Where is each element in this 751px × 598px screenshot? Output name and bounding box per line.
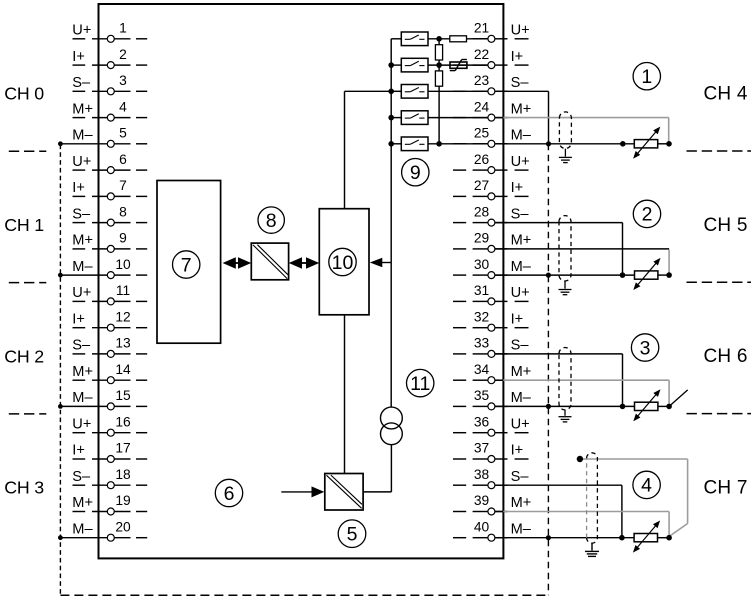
cable shield (CH 4) xyxy=(559,112,571,149)
svg-text:M–: M– xyxy=(511,521,532,537)
terminal 20 (M– CH 3) xyxy=(60,519,147,541)
wire switch row 23 to terminal 23 xyxy=(428,90,488,92)
svg-text:32: 32 xyxy=(474,309,489,324)
junction (row 22) xyxy=(436,62,442,68)
terminal 23 (S– CH 4) xyxy=(453,73,529,95)
cable shield (CH 5) xyxy=(559,216,571,281)
svg-text:4: 4 xyxy=(119,99,127,114)
switch S1 (multiplexer row 21) xyxy=(391,32,428,46)
switch S4 (multiplexer row 24) xyxy=(391,111,428,125)
junction M- bus (CH 6) xyxy=(546,404,551,409)
svg-text:14: 14 xyxy=(115,362,131,377)
svg-text:39: 39 xyxy=(474,493,490,508)
label 9 (circled) xyxy=(402,159,429,186)
svg-text:4: 4 xyxy=(641,475,652,497)
svg-text:10: 10 xyxy=(115,257,131,272)
terminal 40 (M– CH 7) xyxy=(453,519,532,541)
label 11 (circled) xyxy=(407,369,434,396)
terminal 25 (M– CH 4) xyxy=(453,126,532,148)
terminal 18 (S– CH 3) xyxy=(72,467,147,489)
svg-text:U+: U+ xyxy=(72,285,91,301)
wire switch row 24 to terminal 24 xyxy=(428,117,488,119)
svg-text:40: 40 xyxy=(474,519,490,534)
svg-text:U+: U+ xyxy=(511,154,530,170)
switch S2 (multiplexer row 22) xyxy=(391,58,428,72)
svg-text:M+: M+ xyxy=(511,101,532,117)
terminal 3 (S– CH 0) xyxy=(72,73,147,95)
svg-text:S–: S– xyxy=(511,469,530,485)
terminal 27 (I+ CH 5) xyxy=(453,178,529,200)
terminal 11 (U+ CH 2) xyxy=(72,283,147,305)
svg-text:I+: I+ xyxy=(511,49,524,65)
terminal 4 (M+ CH 0) xyxy=(72,99,147,121)
channel separator (right, dashed) xyxy=(687,281,751,283)
terminal 6 (U+ CH 1) xyxy=(72,152,147,174)
reference label 4 (circled) xyxy=(633,471,660,498)
wire resistor to terminal 21 xyxy=(467,38,489,40)
junction left M- bus terminal 20 xyxy=(58,535,63,540)
terminal 13 (S– CH 2) xyxy=(72,336,147,358)
label 7 (circled) xyxy=(173,251,200,278)
terminal 22 (I+ CH 4) xyxy=(453,47,529,69)
terminal 28 (S– CH 5) xyxy=(453,204,529,226)
resistor (row 21) xyxy=(450,36,467,42)
wire S- terminal 23 to M- (CH 4) xyxy=(495,91,549,144)
svg-text:33: 33 xyxy=(474,336,490,351)
svg-text:7: 7 xyxy=(119,178,127,193)
terminal 12 (I+ CH 2) xyxy=(72,309,147,331)
svg-text:M+: M+ xyxy=(72,233,93,249)
terminal 14 (M+ CH 2) xyxy=(72,362,147,384)
terminal 15 (M– CH 2) xyxy=(60,388,147,410)
junction sensor right (CH 7) xyxy=(666,535,672,541)
svg-text:37: 37 xyxy=(474,441,489,456)
label 6 (circled) xyxy=(215,479,242,506)
sensor potentiometer (CH 4) xyxy=(633,127,660,159)
wire M+ terminal 29 (CH 5) xyxy=(495,249,669,273)
junction sensor left (CH 5) xyxy=(620,272,626,278)
wire S- terminal 38 to sensor (CH 7) xyxy=(495,485,622,538)
unconnected lead (CH 6) xyxy=(669,390,688,407)
junction sensor left (CH 7) xyxy=(619,535,625,541)
svg-text:2: 2 xyxy=(119,47,127,62)
junction sensor left (CH 4) xyxy=(620,141,626,147)
switch bus vertical (group 9 to current source) xyxy=(390,39,392,407)
svg-text:M–: M– xyxy=(72,521,93,537)
svg-text:9: 9 xyxy=(410,162,421,184)
svg-text:M+: M+ xyxy=(72,364,93,380)
M- equipotential bus (bottom, dashed) xyxy=(60,594,548,596)
svg-text:S–: S– xyxy=(72,206,91,222)
terminal 10 (M– CH 1) xyxy=(60,257,147,279)
junction (row 22) xyxy=(388,62,394,68)
svg-text:18: 18 xyxy=(115,467,131,482)
svg-text:I+: I+ xyxy=(72,180,85,196)
terminal 36 (U+ CH 7) xyxy=(453,414,530,436)
svg-text:M–: M– xyxy=(511,128,532,144)
svg-text:CH 3: CH 3 xyxy=(4,478,44,498)
junction sensor right (CH 6) xyxy=(666,404,672,410)
svg-text:CH 5: CH 5 xyxy=(704,215,748,236)
svg-text:CH 7: CH 7 xyxy=(704,477,748,498)
label 10 (circled) xyxy=(329,248,356,275)
wire block 10 to block 5 xyxy=(344,315,346,474)
terminal 33 (S– CH 6) xyxy=(453,336,529,358)
terminal 7 (I+ CH 1) xyxy=(72,178,147,200)
svg-text:S–: S– xyxy=(72,338,91,354)
switch S3 (multiplexer row 23) xyxy=(391,85,428,99)
terminal 9 (M+ CH 1) xyxy=(72,231,147,253)
svg-text:8: 8 xyxy=(119,204,127,219)
svg-text:U+: U+ xyxy=(511,23,530,39)
channel separator (left, dashed) xyxy=(9,413,47,415)
svg-text:36: 36 xyxy=(474,414,490,429)
svg-text:U+: U+ xyxy=(511,285,530,301)
junction M- bus (CH 7) xyxy=(546,535,551,540)
wire M+ terminal 39 (gray, CH 7) xyxy=(495,512,669,536)
wire S- terminal 33 to sensor (CH 6) xyxy=(495,354,623,407)
svg-text:28: 28 xyxy=(474,204,490,219)
svg-text:6: 6 xyxy=(119,152,127,167)
junction (row 24) xyxy=(388,115,394,121)
svg-text:I+: I+ xyxy=(72,443,85,459)
svg-text:13: 13 xyxy=(115,336,131,351)
sensor potentiometer (CH 7) xyxy=(633,521,660,553)
junction sensor left (CH 6) xyxy=(620,404,626,410)
svg-text:M+: M+ xyxy=(511,364,532,380)
terminal 24 (M+ CH 4) xyxy=(453,99,531,121)
svg-text:M–: M– xyxy=(511,390,532,406)
reference label 3 (circled) xyxy=(631,334,658,361)
wire switch row 25 to terminal 25 xyxy=(428,143,488,145)
M- equipotential bus (right, dashed) xyxy=(547,144,549,595)
terminal 37 (I+ CH 7) xyxy=(453,441,529,463)
svg-text:30: 30 xyxy=(474,257,490,272)
arrow into block 10 xyxy=(370,258,391,268)
svg-text:S–: S– xyxy=(511,75,530,91)
terminal 1 (U+ CH 0) xyxy=(72,21,147,43)
svg-text:S–: S– xyxy=(72,75,91,91)
fuse/varistor (row 22) xyxy=(450,60,467,71)
svg-text:I+: I+ xyxy=(511,311,524,327)
channel separator (right, dashed) xyxy=(687,413,751,415)
arrow into block 5 (supply 24V) xyxy=(281,486,324,497)
svg-text:35: 35 xyxy=(474,388,490,403)
block 5 (isolated power supply) xyxy=(325,474,363,511)
svg-text:M+: M+ xyxy=(511,495,532,511)
label 5 (circled) xyxy=(338,520,366,548)
svg-text:11: 11 xyxy=(410,373,430,395)
svg-text:38: 38 xyxy=(474,467,490,482)
svg-text:5: 5 xyxy=(347,524,358,546)
svg-text:I+: I+ xyxy=(72,311,85,327)
svg-text:CH 0: CH 0 xyxy=(4,84,44,104)
wire switch row 22 to terminal 22 xyxy=(428,64,488,66)
terminal 30 (M– CH 5) xyxy=(453,257,532,279)
terminal 26 (U+ CH 5) xyxy=(453,152,530,174)
junction (row 25) xyxy=(436,141,442,147)
resistor chain vertical (rows 21-25) xyxy=(435,39,442,144)
svg-text:M–: M– xyxy=(72,259,93,275)
svg-text:S–: S– xyxy=(511,206,530,222)
reference label 2 (circled) xyxy=(633,200,660,227)
ground symbol (CH 6) xyxy=(559,410,572,422)
svg-text:U+: U+ xyxy=(72,416,91,432)
svg-text:3: 3 xyxy=(640,337,651,359)
channel separator (left, dashed) xyxy=(9,282,47,284)
svg-text:11: 11 xyxy=(116,283,130,298)
svg-text:M+: M+ xyxy=(511,233,532,249)
svg-text:U+: U+ xyxy=(511,416,530,432)
svg-text:22: 22 xyxy=(474,47,489,62)
svg-text:6: 6 xyxy=(224,483,235,505)
svg-text:CH 1: CH 1 xyxy=(4,215,44,235)
junction S-/M- (CH 4) xyxy=(546,141,551,146)
svg-text:1: 1 xyxy=(641,66,652,88)
terminal 39 (M+ CH 7) xyxy=(453,493,531,515)
wire M+ terminal 34 (gray, CH 6) xyxy=(495,380,669,404)
label 8 (circled) xyxy=(258,207,284,233)
junction M- bus (CH 5) xyxy=(546,273,551,278)
svg-text:31: 31 xyxy=(474,283,489,298)
svg-text:23: 23 xyxy=(474,73,490,88)
module outline xyxy=(99,4,504,558)
svg-text:24: 24 xyxy=(474,99,490,114)
svg-text:U+: U+ xyxy=(72,154,91,170)
terminal 16 (U+ CH 3) xyxy=(72,414,147,436)
svg-text:19: 19 xyxy=(115,493,131,508)
reference label 1 (circled) xyxy=(633,62,660,89)
svg-text:27: 27 xyxy=(474,178,489,193)
wire M- terminal 35 to sensor (CH 6) xyxy=(495,405,635,407)
svg-text:S–: S– xyxy=(72,469,91,485)
block 8 (electrical isolation) xyxy=(251,243,288,280)
terminal 5 (M– CH 0) xyxy=(60,126,147,148)
ground symbol (CH 5) xyxy=(559,281,572,295)
svg-text:M+: M+ xyxy=(72,495,93,511)
current source (two circles) xyxy=(381,407,403,445)
svg-text:I+: I+ xyxy=(511,180,524,196)
svg-text:12: 12 xyxy=(115,309,130,324)
svg-text:CH 2: CH 2 xyxy=(4,346,44,366)
wire M- terminal 25 to sensor (CH 4) xyxy=(495,143,634,145)
bus arrow 8 to 10 (double headed) xyxy=(289,257,319,269)
wire switch row 21 to resistor xyxy=(428,38,450,40)
wire row 23 to converter input xyxy=(345,91,392,208)
wire S- terminal 28 to sensor (CH 5) xyxy=(495,223,623,276)
svg-text:M–: M– xyxy=(511,259,532,275)
terminal 32 (I+ CH 6) xyxy=(453,309,529,331)
cable shield (CH 7) xyxy=(587,453,598,543)
ground symbol (CH 7) xyxy=(585,544,599,557)
svg-text:I+: I+ xyxy=(72,49,85,65)
svg-text:26: 26 xyxy=(474,152,490,167)
switch S5 (multiplexer row 25) xyxy=(391,137,428,151)
svg-text:M+: M+ xyxy=(72,101,93,117)
terminal 31 (U+ CH 6) xyxy=(453,283,530,305)
svg-text:1: 1 xyxy=(119,21,127,36)
terminal 38 (S– CH 7) xyxy=(453,467,529,489)
svg-text:21: 21 xyxy=(474,21,489,36)
channel separator (left, dashed) xyxy=(9,150,47,152)
block 7 (backplane bus interface) xyxy=(157,181,221,344)
svg-text:10: 10 xyxy=(332,252,354,274)
sensor potentiometer (CH 6) xyxy=(633,389,660,421)
terminal 8 (S– CH 1) xyxy=(72,204,147,226)
terminal 19 (M+ CH 3) xyxy=(72,493,147,515)
svg-text:29: 29 xyxy=(474,231,490,246)
svg-text:17: 17 xyxy=(115,441,130,456)
wire M- terminal 30 to sensor (CH 5) xyxy=(495,274,635,276)
terminal 17 (I+ CH 3) xyxy=(72,441,147,463)
svg-text:7: 7 xyxy=(181,254,192,276)
svg-text:34: 34 xyxy=(474,362,490,377)
block 10 (ADC) xyxy=(319,209,369,315)
bus arrow 7 to 8 (double headed) xyxy=(223,257,252,269)
ground symbol (CH 4) xyxy=(559,149,572,163)
junction shield tap (CH 7) xyxy=(577,456,583,462)
svg-text:CH 6: CH 6 xyxy=(704,346,748,367)
terminal 21 (U+ CH 4) xyxy=(453,21,530,43)
svg-text:2: 2 xyxy=(642,204,653,226)
terminal 29 (M+ CH 5) xyxy=(453,231,531,253)
svg-text:M–: M– xyxy=(72,128,93,144)
terminal 2 (I+ CH 0) xyxy=(72,47,147,69)
svg-text:20: 20 xyxy=(115,519,131,534)
svg-text:25: 25 xyxy=(474,126,490,141)
shield connection wire (gray, CH 7) xyxy=(583,459,688,537)
svg-text:16: 16 xyxy=(115,414,131,429)
terminal 35 (M– CH 6) xyxy=(453,388,532,410)
svg-text:3: 3 xyxy=(119,73,127,88)
svg-text:9: 9 xyxy=(119,231,127,246)
svg-text:S–: S– xyxy=(511,338,530,354)
sensor potentiometer (CH 5) xyxy=(633,258,660,290)
junction left M- bus terminal 15 xyxy=(58,404,63,409)
junction (row 25) xyxy=(388,141,394,147)
svg-text:15: 15 xyxy=(115,388,131,403)
svg-text:U+: U+ xyxy=(72,23,91,39)
junction sensor right (CH 5) xyxy=(666,272,672,278)
junction (row 23) xyxy=(388,89,394,95)
svg-text:8: 8 xyxy=(266,210,277,232)
wire M- terminal 40 to sensor (CH 7) xyxy=(495,537,634,539)
junction left M- bus terminal 10 xyxy=(58,273,63,278)
svg-text:5: 5 xyxy=(119,126,127,141)
junction left M- bus terminal 5 xyxy=(58,141,63,146)
wire current source to block 5 xyxy=(363,445,391,492)
junction sensor right (CH 4) xyxy=(666,141,672,147)
svg-text:I+: I+ xyxy=(511,443,524,459)
channel separator (right, dashed) xyxy=(687,150,751,152)
wire M+ terminal 24 (gray, CH 4) xyxy=(495,118,669,142)
M- equipotential bus (left, dashed) xyxy=(59,145,61,596)
cable shield (CH 6) xyxy=(559,348,571,410)
junction (row 21) xyxy=(436,36,442,42)
svg-text:CH 4: CH 4 xyxy=(704,84,748,105)
svg-text:M–: M– xyxy=(72,390,93,406)
terminal 34 (M+ CH 6) xyxy=(453,362,531,384)
